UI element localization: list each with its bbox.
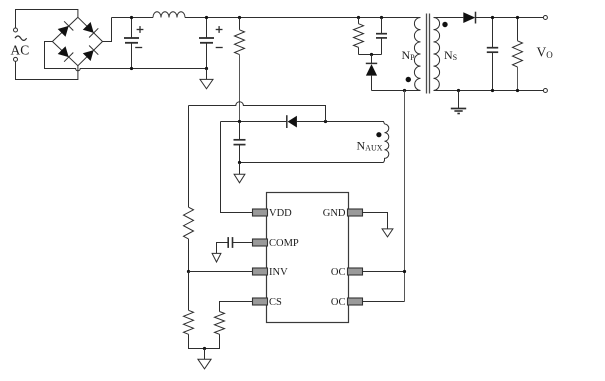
wire GND pin to ground	[363, 213, 388, 229]
node startup resistor top	[238, 16, 241, 19]
capacitor C3 (clamp snubber)	[376, 18, 387, 55]
output terminal top	[543, 16, 547, 20]
wire R1 down through hop to VDD node	[239, 55, 241, 122]
label Vo	[537, 45, 554, 61]
wire OC upper to switch line	[363, 271, 405, 273]
wire top DC rail inductor to transformer primary	[185, 17, 421, 19]
label VDD	[269, 208, 292, 219]
svg-text:NP: NP	[402, 48, 416, 62]
wire OC lower to switch line	[363, 301, 405, 303]
node divider ground junction	[203, 347, 206, 350]
capacitor C5 (VDD)	[234, 122, 246, 163]
node INV	[187, 270, 190, 273]
node VDD cap junction	[238, 120, 241, 123]
pin COMP	[253, 239, 268, 246]
node switch line	[403, 89, 406, 92]
wire output top rail	[476, 17, 544, 19]
capacitor C1 (bulk, polarized)	[124, 18, 143, 69]
ground below divider	[198, 349, 211, 369]
transformer primary winding Np	[414, 18, 420, 91]
capacitor C6 (COMP)	[217, 237, 253, 253]
resistor R2 (clamp snubber)	[354, 18, 364, 55]
bridge diode D4 (bottom-right edge, pointing to right vertex)	[83, 46, 99, 62]
node aux sense junction	[324, 120, 327, 123]
resistor R6 (CS sense)	[205, 302, 253, 349]
svg-text:INV: INV	[269, 267, 288, 278]
secondary phase dot	[442, 22, 447, 27]
ground below C2	[200, 69, 213, 89]
ground COMP	[212, 253, 221, 262]
label Naux	[357, 139, 383, 153]
IC U1 body	[267, 193, 349, 323]
ground GND pin	[382, 229, 393, 237]
wire switch node (primary bottom to clamp and OC line)	[372, 90, 421, 92]
node R3 bottom	[516, 89, 519, 92]
node C1 top	[130, 16, 133, 19]
resistor R5 (divider lower)	[184, 272, 205, 349]
inductor L1	[153, 12, 185, 18]
diode D5 (clamp, cathode up)	[366, 55, 377, 91]
node R3 top	[516, 16, 519, 19]
svg-text:NS: NS	[444, 48, 457, 62]
node OC upper	[403, 270, 406, 273]
capacitor C4 (output)	[487, 18, 498, 91]
primary phase dot	[406, 77, 411, 82]
transformer core	[427, 14, 430, 94]
node snubber join	[370, 53, 373, 56]
resistor R1 (startup, from rail down to VDD node)	[235, 18, 245, 55]
svg-text:COMP: COMP	[269, 238, 299, 249]
resistor R3 (load)	[513, 18, 523, 91]
ground below C5	[234, 163, 245, 183]
aux phase dot	[376, 132, 381, 137]
label CS	[269, 297, 282, 308]
bridge diode D3 (left-bottom edge, pointing to bottom vertex)	[58, 46, 74, 62]
wire aux top line (VDD corner to winding)	[221, 122, 385, 125]
earth ground (secondary)	[451, 91, 466, 114]
bridge diode D2 (top-right edge, pointing to right vertex)	[83, 22, 99, 38]
bridge diode D1 (left-top edge, pointing to top vertex)	[58, 21, 74, 37]
label GND	[323, 208, 346, 219]
bridge rectifier diamond wires	[52, 17, 102, 65]
transformer secondary winding Ns	[434, 18, 440, 91]
node C5 bottom	[238, 161, 241, 164]
wire VDD supply down to VDD pin	[221, 122, 253, 213]
capacitor C2 (filter, polarized)	[199, 18, 223, 69]
svg-text:OC: OC	[331, 267, 346, 278]
label OC lower	[331, 297, 346, 308]
pin INV	[253, 268, 268, 275]
pin OC lower	[348, 298, 363, 305]
svg-text:CS: CS	[269, 297, 282, 308]
svg-text:VDD: VDD	[269, 208, 292, 219]
wire secondary bottom rail	[434, 90, 544, 92]
node secondary ground	[457, 89, 460, 92]
svg-text:GND: GND	[323, 208, 346, 219]
pin OC upper	[348, 268, 363, 275]
node snubber capacitor top	[380, 16, 383, 19]
wire AC top terminal to bridge top vertex	[16, 10, 78, 29]
label COMP	[269, 238, 299, 249]
node snubber resistor top	[357, 16, 360, 19]
wire secondary top to output diode	[434, 17, 464, 19]
label Np	[402, 48, 416, 62]
label OC upper	[331, 267, 346, 278]
svg-text:AC: AC	[11, 43, 30, 58]
diode D7 (aux rectifier, cathode left)	[287, 115, 297, 128]
output terminal bottom	[543, 89, 547, 93]
pin GND	[348, 209, 363, 216]
wire AC bottom terminal to bridge bottom vertex	[16, 61, 78, 79]
pin CS	[253, 298, 268, 305]
wire DC minus rail (left vertex, hop under AC return)	[45, 42, 207, 71]
node C4 top	[491, 16, 494, 19]
wire switch node down to OC pins	[404, 91, 406, 302]
aux winding Naux	[384, 124, 389, 163]
node C2 bottom	[205, 67, 208, 70]
label INV	[269, 267, 288, 278]
wire top DC rail to filter inductor	[112, 17, 154, 19]
AC source terminals and label	[11, 28, 30, 61]
svg-text:NAUX: NAUX	[357, 139, 383, 153]
pin VDD	[253, 209, 268, 216]
diode D6 (output rectifier)	[463, 12, 475, 24]
node C2 top	[205, 16, 208, 19]
wire aux sense line with hop over startup wire	[189, 102, 326, 122]
node C4 bottom	[491, 89, 494, 92]
wire sense line down to divider	[188, 106, 190, 208]
wire DC plus riser from right vertex	[103, 18, 112, 42]
svg-text:OC: OC	[331, 297, 346, 308]
wire aux bottom line	[240, 162, 384, 164]
wire INV pin	[189, 271, 253, 273]
svg-text:VO: VO	[537, 45, 554, 61]
wire snubber RC join	[359, 54, 382, 56]
label Ns	[444, 48, 457, 62]
resistor R4 (divider upper)	[184, 207, 194, 271]
node C1 bottom	[130, 67, 133, 70]
